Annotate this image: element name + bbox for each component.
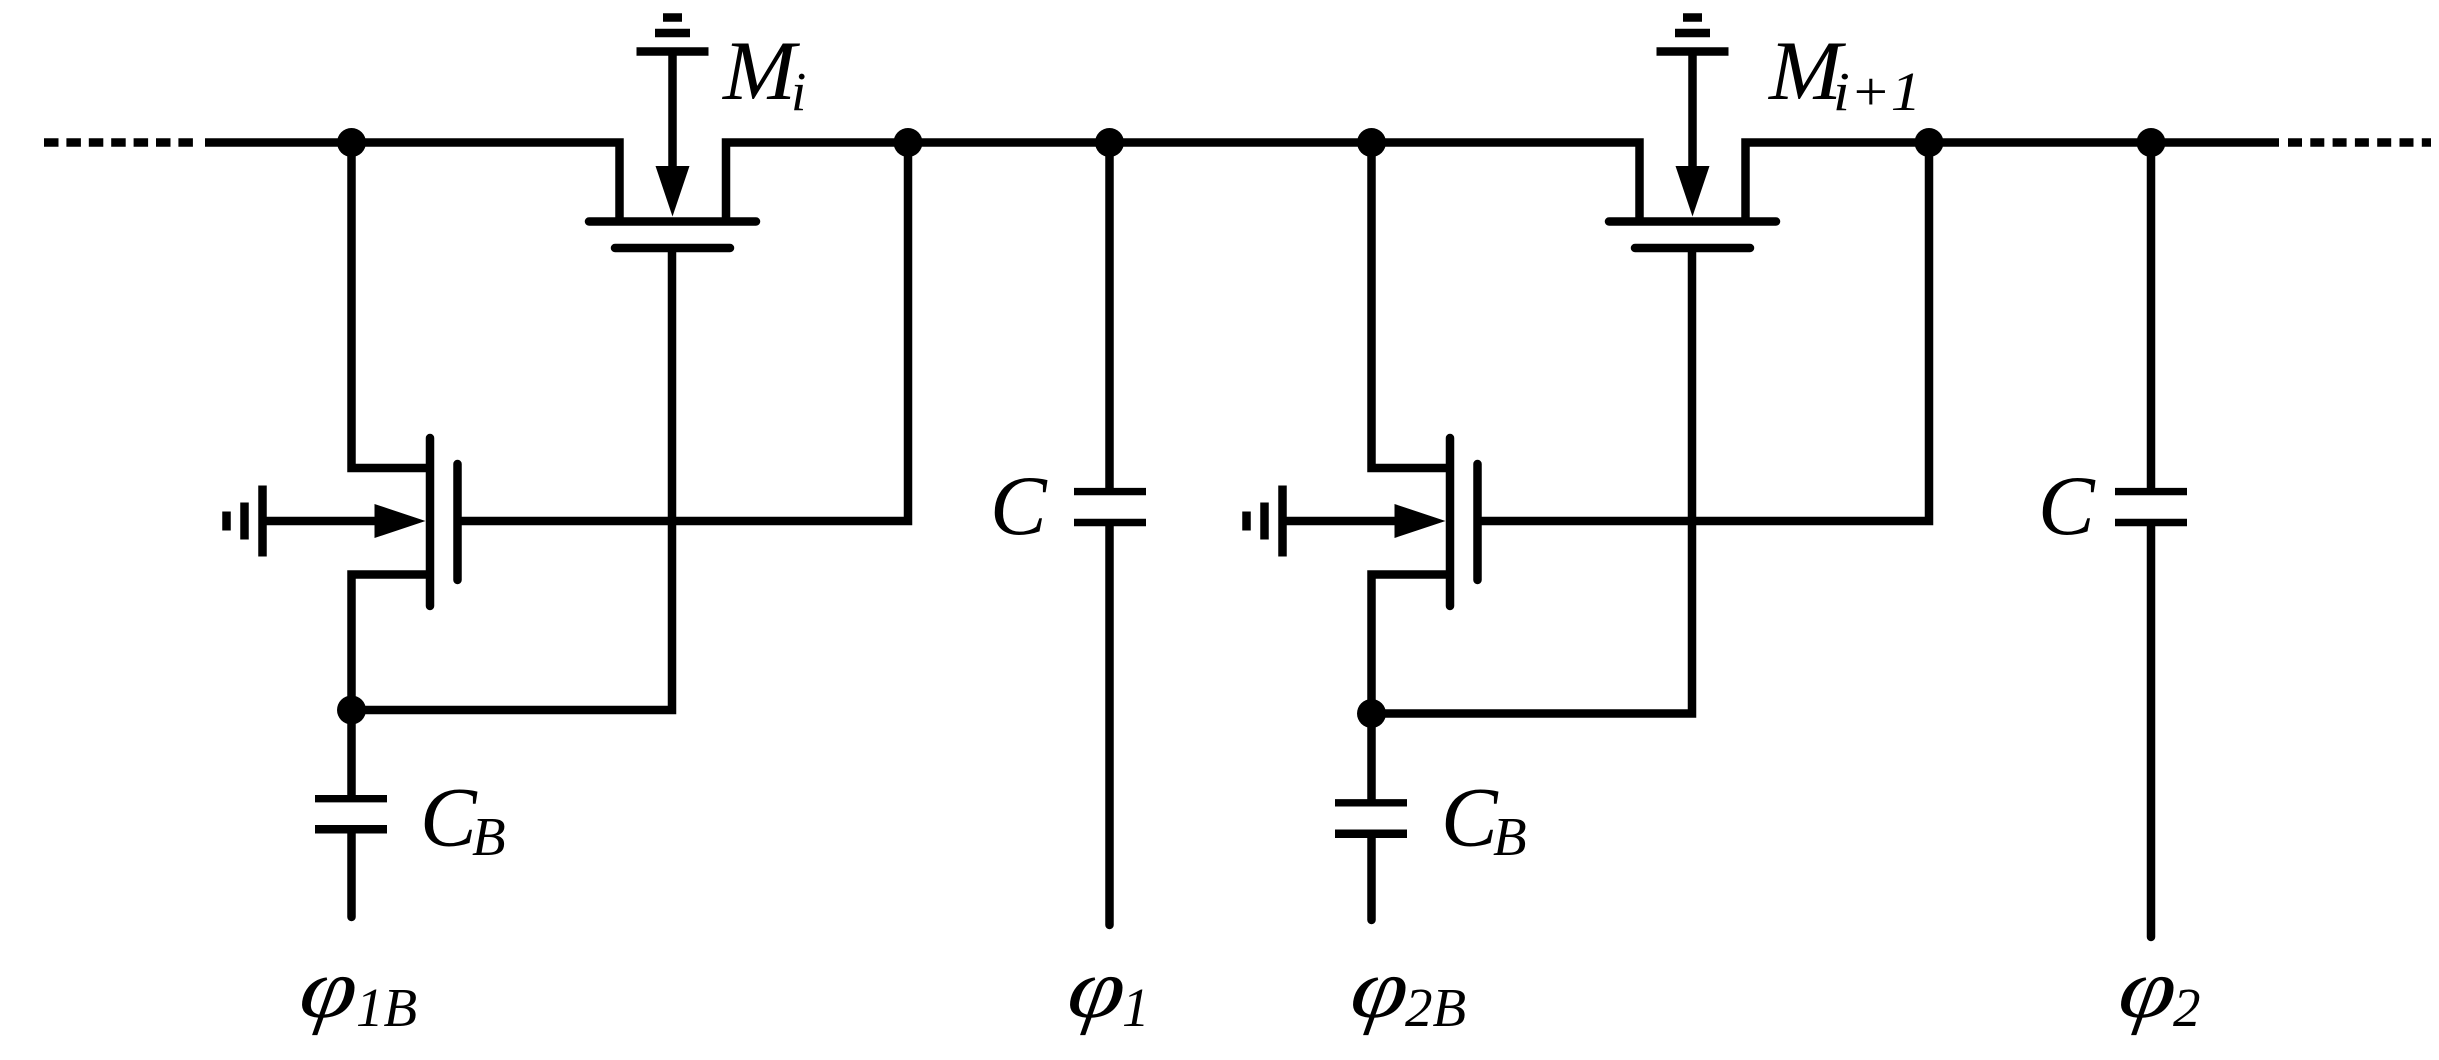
- capacitor CB (right) plates: [1335, 799, 1407, 806]
- node A junction dot: [337, 128, 366, 157]
- wire: M_i gate down to bootstrap node: [352, 248, 673, 710]
- svg-text:1: 1: [1122, 977, 1150, 1038]
- svg-text:2B: 2B: [1405, 977, 1466, 1038]
- bulk arrow of Mb1: [375, 504, 426, 538]
- node C2 junction dot: [2137, 128, 2166, 157]
- svg-text:2: 2: [2173, 977, 2201, 1038]
- svg-text:C: C: [420, 771, 478, 865]
- transistor M_i+1 gate bar: [1635, 244, 1750, 253]
- transistor Mb1 channel bar: [426, 438, 435, 606]
- node A' junction dot: [1357, 128, 1386, 157]
- svg-text:1B: 1B: [356, 977, 417, 1038]
- wire: Mb1 source down to node, and to capacitor CB: [352, 575, 431, 796]
- wire: rail right of Mi+1: [1746, 143, 2280, 222]
- capacitor CB (left) plates: [315, 795, 387, 802]
- svg-text:i: i: [791, 61, 806, 122]
- wire: rail between Mi and Mi+1 with both steps: [726, 143, 1640, 222]
- node C1 junction dot: [1095, 128, 1124, 157]
- svg-text:M: M: [722, 24, 800, 118]
- svg-text:B: B: [1493, 806, 1527, 867]
- wire: M_i+1 gate down to bootstrap node: [1372, 248, 1693, 714]
- svg-text:C: C: [990, 459, 1048, 553]
- wire: node A' drop to Mb2 drain: [1372, 143, 1451, 469]
- wire: Mb2 source down to node, and to capacitor CB': [1372, 575, 1451, 801]
- capacitor C (left) with stubs: [1105, 143, 1114, 489]
- bootstrap node dot (left): [337, 696, 366, 725]
- substrate symbol left of Mb2: [1247, 486, 1401, 557]
- svg-text:B: B: [472, 806, 506, 867]
- node B junction dot: [894, 128, 923, 157]
- svg-text:i+1: i+1: [1833, 61, 1921, 122]
- wire: CB' bottom stub to phi2B: [1367, 838, 1376, 921]
- wire: right dashed rail segment: [2288, 138, 2431, 147]
- transistor Mb2 gate bar: [1473, 464, 1482, 580]
- transistor Mb1 gate bar: [453, 464, 462, 580]
- wire: left dashed rail segment: [44, 138, 193, 147]
- svg-text:C: C: [2038, 459, 2096, 553]
- wire: CB bottom stub to phi1B: [347, 833, 356, 917]
- substrate symbol above M_i+1: [1657, 18, 1729, 173]
- transistor M_i gate bar: [615, 244, 730, 253]
- transistor M_i+1 channel bar: [1609, 217, 1776, 226]
- svg-text:C: C: [1441, 771, 1499, 865]
- node B' junction dot: [1915, 128, 1944, 157]
- transistor M_i channel bar: [589, 217, 756, 226]
- wire: Mb2 gate to node B': [1478, 143, 1930, 522]
- svg-text:φ: φ: [294, 942, 364, 1036]
- wire: left rail to Mi drain step: [205, 143, 620, 222]
- wire: node A drop to bootstrap transistor drain: [352, 143, 431, 469]
- wire: Mb1 gate to node B: [458, 143, 909, 522]
- capacitor C (right) with stubs: [2147, 143, 2156, 489]
- substrate symbol above M_i: [637, 18, 709, 173]
- bootstrap node dot (right): [1357, 699, 1386, 728]
- transistor Mb2 channel bar: [1446, 438, 1455, 606]
- bulk arrow of M_i+1: [1676, 166, 1710, 217]
- bulk arrow of Mb2: [1395, 504, 1446, 538]
- substrate symbol left of Mb1: [227, 486, 381, 557]
- bulk arrow of M_i: [656, 166, 690, 217]
